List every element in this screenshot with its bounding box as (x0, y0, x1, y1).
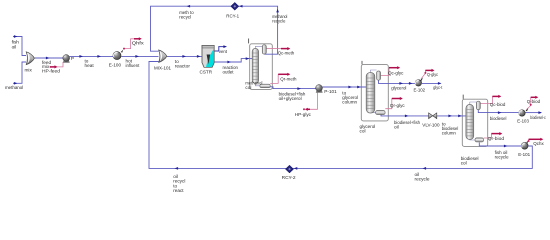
tick above glycerol column box (361, 61, 363, 65)
svg-text:E-101: E-101 (518, 152, 530, 157)
svg-text:glyc-t: glyc-t (433, 85, 443, 90)
svg-text:column: column (342, 99, 357, 104)
biodiesel column subflowsheet box (462, 99, 487, 146)
svg-text:outlet: outlet (223, 69, 235, 74)
label MIX-101 (154, 65, 171, 70)
wire methanol col bottoms (to P-101) (269, 87, 316, 90)
recycle RCY-1 (231, 2, 239, 10)
svg-text:biodiesel-c: biodiesel-c (530, 115, 546, 120)
label biodiesel+fish oil (glycerol col bottoms) (394, 120, 420, 130)
svg-text:Qr-meth: Qr-meth (280, 77, 297, 82)
svg-text:HP-feed: HP-feed (42, 69, 60, 74)
label biodiesel-c (530, 115, 546, 120)
wire to reactor (MIX-101 to CSTR) (167, 55, 202, 58)
pump P (63, 55, 70, 63)
tick above methanol column box (248, 39, 250, 44)
label oil recycle (415, 172, 430, 182)
label fish oil recycle (495, 150, 509, 160)
label VLV-100 (422, 123, 440, 128)
svg-text:HP-glyc: HP-glyc (295, 112, 312, 117)
svg-text:Qr-glyc: Qr-glyc (390, 103, 405, 108)
methanol col tower internals (252, 46, 264, 86)
glycerol col condenser (377, 71, 381, 80)
label P (71, 56, 74, 61)
label to glycerol column (342, 90, 358, 104)
label Q-biod (527, 99, 541, 104)
svg-text:VLV-100: VLV-100 (422, 123, 440, 128)
svg-text:recycl: recycl (179, 14, 191, 19)
label RCY-2 (282, 175, 296, 180)
energy stream Qchx (E-101 duty) (526, 138, 544, 144)
energy stream Qc-biod (480, 95, 501, 104)
wire glyc-t terminal (E-102 out) (422, 82, 442, 85)
label to biodiesel column (442, 121, 459, 135)
wire reaction outlet (CSTR to methanol col) (214, 57, 252, 63)
svg-text:oil+glycerol: oil+glycerol (279, 96, 302, 101)
svg-text:RCY-1: RCY-1 (226, 14, 239, 19)
label Q-glyc (427, 72, 439, 77)
glycerol column subflowsheet box (361, 65, 388, 121)
svg-text:CSTR: CSTR (200, 69, 213, 74)
energy stream HP-feed (50, 62, 63, 69)
label reaction outlet (223, 65, 239, 75)
cooler E-103 (519, 110, 525, 116)
svg-text:Qchx: Qchx (533, 141, 544, 146)
label fish oil (12, 40, 20, 50)
wire vent (214, 45, 227, 51)
label to reactor (175, 59, 191, 69)
recycle RCY-2 (285, 165, 293, 173)
wire feed mix (mixer to pump P) (35, 57, 63, 60)
energy stream Qr-glyc (385, 97, 403, 109)
reactor CSTR (202, 45, 214, 67)
label E-100 (109, 62, 122, 67)
energy stream Qhfx (121, 37, 142, 52)
label glycerol (product) (391, 86, 406, 91)
svg-text:glycerol: glycerol (391, 86, 406, 91)
wire glycerol product (condenser to E-102) (379, 80, 415, 84)
label Qchx (533, 141, 544, 146)
wire biodiesel-c terminal (E-103 out) (525, 111, 542, 114)
energy stream Q-biod (E-103 duty) (526, 96, 539, 111)
methanol col condenser (262, 45, 266, 54)
mixer MIX-101 (159, 50, 167, 62)
svg-text:RCY-2: RCY-2 (282, 175, 296, 180)
svg-text:recycle: recycle (495, 154, 509, 159)
svg-text:Qr-biod: Qr-biod (488, 136, 505, 141)
biodiesel col tower internals (466, 102, 477, 140)
svg-text:col: col (360, 128, 366, 133)
label biodiesel+fish oil+glycerol (279, 91, 306, 101)
label Qhfx (132, 41, 145, 46)
energy stream HP-glyc (303, 93, 317, 111)
label P-101 (324, 89, 337, 94)
svg-text:heat: heat (85, 63, 95, 68)
energy stream Q-glyc (E-102 duty) (420, 69, 434, 81)
label RCY-1 (226, 14, 239, 19)
valve VLV-100 (429, 113, 437, 119)
svg-text:oil: oil (394, 125, 399, 130)
label Qc-glyc (388, 71, 404, 76)
wire methanol feed (13, 62, 26, 85)
label methanol (feed) (5, 85, 23, 90)
biodiesel col reboiler (475, 138, 484, 142)
svg-text:col: col (461, 161, 467, 166)
glycerol col tower internals (366, 70, 376, 113)
label Qr-glyc (390, 103, 405, 108)
svg-text:Qc-glyc: Qc-glyc (388, 71, 404, 76)
svg-text:oil: oil (12, 44, 17, 49)
label mix (25, 68, 33, 73)
wire fish oil feed (13, 35, 26, 55)
biodiesel col condenser (476, 101, 480, 109)
wire methanol recycle (condenser up over to MIX-101) (151, 5, 279, 54)
svg-text:P: P (71, 56, 74, 61)
label vent (219, 49, 228, 54)
heater E-100 (113, 52, 121, 60)
label E-102 (414, 88, 426, 93)
label to heat (85, 59, 95, 68)
svg-text:Qc-meth: Qc-meth (278, 50, 295, 55)
methanol column subflowsheet box (250, 44, 273, 90)
label glycerol col (360, 124, 376, 134)
svg-text:recycle: recycle (415, 177, 430, 182)
label hot influent (126, 58, 140, 68)
svg-text:methanol: methanol (5, 85, 23, 90)
methanol col reboiler (260, 84, 270, 87)
tick above biodiesel column box (462, 95, 464, 99)
label E-103 (517, 118, 529, 123)
svg-text:vent: vent (219, 49, 228, 54)
label meth to recycl (179, 10, 194, 19)
wire oil recycle (E-101 down and along bottom through RCY-2 to MIX-101) (149, 62, 532, 170)
svg-text:P-101: P-101 (324, 89, 337, 94)
label Qr-biod (488, 136, 505, 141)
label methanol col (245, 81, 262, 91)
svg-text:E-102: E-102 (414, 88, 426, 93)
cooler E-101 (521, 142, 528, 149)
label Qc-biod (490, 102, 506, 107)
wire biodiesel product (condenser to E-103) (478, 110, 519, 114)
svg-text:Qc-biod: Qc-biod (490, 102, 506, 107)
energy stream Qr-biod (484, 132, 503, 138)
svg-text:biodiesel: biodiesel (490, 116, 507, 121)
svg-text:mix: mix (25, 68, 33, 73)
svg-text:MIX-101: MIX-101 (154, 65, 171, 70)
wire hot influent (E-100 to MIX-101) (121, 55, 158, 58)
label methanol recycle (272, 14, 287, 24)
pump P-101 (316, 85, 323, 93)
energy stream Qr-meth (270, 73, 290, 84)
svg-text:Q-glyc: Q-glyc (427, 72, 439, 77)
svg-text:recycle: recycle (272, 19, 286, 24)
label biodiesel (product) (490, 116, 507, 121)
label Qr-meth (280, 77, 297, 82)
wire to heat (pump P to E-100) (70, 55, 114, 58)
label feed mix (42, 60, 52, 69)
label CSTR (200, 69, 213, 74)
svg-text:influent: influent (126, 63, 140, 68)
svg-text:column: column (442, 130, 457, 135)
svg-text:Q-biod: Q-biod (527, 99, 541, 104)
svg-text:E-100: E-100 (109, 62, 122, 67)
label biodiesel col (461, 156, 479, 166)
energy stream Qc-glyc (381, 66, 401, 76)
svg-text:Qhfx: Qhfx (132, 41, 145, 46)
svg-text:reactor: reactor (175, 63, 191, 68)
label HP-feed (42, 69, 60, 74)
cooler E-102 (415, 80, 421, 86)
svg-text:E-103: E-103 (517, 118, 529, 123)
mixer mix (26, 52, 34, 65)
label Qc-meth (278, 50, 295, 55)
label glyc-t (433, 85, 443, 90)
wire fish oil recycle (biodiesel col bottoms to E-101) (479, 143, 521, 148)
label HP-glyc (295, 112, 312, 117)
svg-text:col: col (245, 85, 251, 90)
wire to glycerol column (P-101 to glycerol col) (322, 86, 366, 89)
svg-text:react: react (173, 188, 184, 193)
label oil recycl to react (173, 174, 185, 193)
glycerol col reboiler (376, 111, 386, 115)
wire glycerol col bottoms to VLV-100 and biodiesel col (381, 114, 466, 117)
label E-101 (518, 152, 530, 157)
energy stream Qc-meth (266, 47, 291, 50)
